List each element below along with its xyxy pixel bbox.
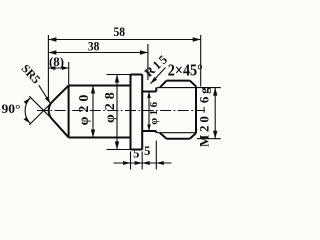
dimension (8): extension line right (junction extended) — [68, 62, 70, 85]
dimension 90deg: extension line (lower flank extended past apex) — [29, 96, 51, 118]
part outline: upper cone flank — [52, 86, 68, 102]
thread minor diameter line bottom (thin) — [157, 132, 196, 134]
dimensions 5,5: dimension line with outside arrows — [114, 161, 172, 165]
dimension M20-6g: extension line bottom — [197, 138, 221, 140]
svg-text:(8): (8) — [49, 54, 64, 69]
part outline: groove phi16 bottom edge — [142, 130, 156, 132]
dimension 38: dimension line with arrows — [48, 50, 147, 54]
svg-text:2×45°: 2×45° — [168, 60, 203, 79]
part outline: thread crest bottom — [167, 138, 190, 140]
dimension 58: extension line right (at end face) — [200, 35, 202, 87]
svg-text:SR5: SR5 — [18, 61, 43, 86]
dimension 58: extension line left (at sphere tip) — [47, 35, 49, 99]
part outline: chamfer 2x45 bottom edge — [190, 133, 196, 139]
thread minor diameter line top (thin) — [157, 87, 196, 89]
dimension M20-6g: extension line top — [197, 87, 221, 89]
part outline: thread start face bottom — [155, 131, 157, 133]
svg-text:38: 38 — [88, 38, 100, 53]
part outline: lower cone flank — [52, 119, 68, 137]
part outline: phi20 cylinder top edge — [69, 85, 131, 87]
svg-text:90°: 90° — [2, 102, 21, 116]
dimension (8): dimension line with arrows — [48, 66, 68, 70]
svg-text:φ16: φ16 — [148, 99, 160, 124]
svg-text:5: 5 — [144, 144, 150, 158]
part outline: thread crest top (major dia M20) — [167, 80, 190, 82]
dimension phi28: extension of collar top edge — [107, 74, 131, 76]
svg-text:M20−6g: M20−6g — [197, 85, 212, 147]
dimension 90deg: arc with arrows — [24, 98, 31, 124]
part outline: phi20 cylinder bottom edge — [69, 137, 131, 139]
part outline: cone-cylinder junction line — [68, 86, 70, 138]
dimension 90deg: extension line (upper flank extended past apex) — [29, 103, 51, 125]
svg-text:58: 58 — [113, 24, 125, 39]
part outline: groove phi16 top edge — [142, 91, 156, 93]
dimension 5 (collar width): extension line left — [130, 152, 132, 170]
dimension M20-6g: dimension line with arrows — [213, 88, 217, 139]
dimension 38: extension line right — [147, 44, 149, 80]
dimension phi28: dimension line with arrows — [115, 75, 119, 150]
svg-text:φ28: φ28 — [103, 88, 118, 123]
dimension phi20: dimension line with arrows — [91, 86, 95, 138]
part outline: chamfer 2x45 top edge — [190, 81, 196, 87]
dimension 58: dimension line with arrows — [48, 37, 200, 41]
svg-text:5: 5 — [133, 147, 139, 161]
part outline: collar right face — [141, 75, 143, 150]
part outline: thread run-out fillet top R1.5 — [160, 81, 167, 88]
svg-text:φ20: φ20 — [77, 91, 92, 126]
part outline: right end face — [195, 86, 197, 133]
dimension 5 shared extension line (collar right face) — [141, 152, 143, 170]
dimension 5 (groove width): extension line right — [155, 141, 157, 170]
dimension phi16: dimension line with arrows — [147, 92, 151, 132]
part outline: spherical tip arc SR5 — [49, 102, 53, 120]
part outline: collar bottom edge — [131, 149, 143, 151]
centerline (dash-dot axis) — [37, 110, 205, 112]
part outline: collar left face — [130, 75, 132, 150]
part outline: collar top edge — [131, 74, 143, 76]
part outline: thread start face top — [155, 87, 157, 91]
leader SR5: line and arrow to sphere — [39, 85, 51, 104]
part outline: thread run-out fillet bottom — [160, 133, 167, 139]
dimension phi28: extension of collar bottom edge — [107, 149, 131, 151]
leader R1.5: line and arrow to thread fillet — [151, 68, 166, 84]
